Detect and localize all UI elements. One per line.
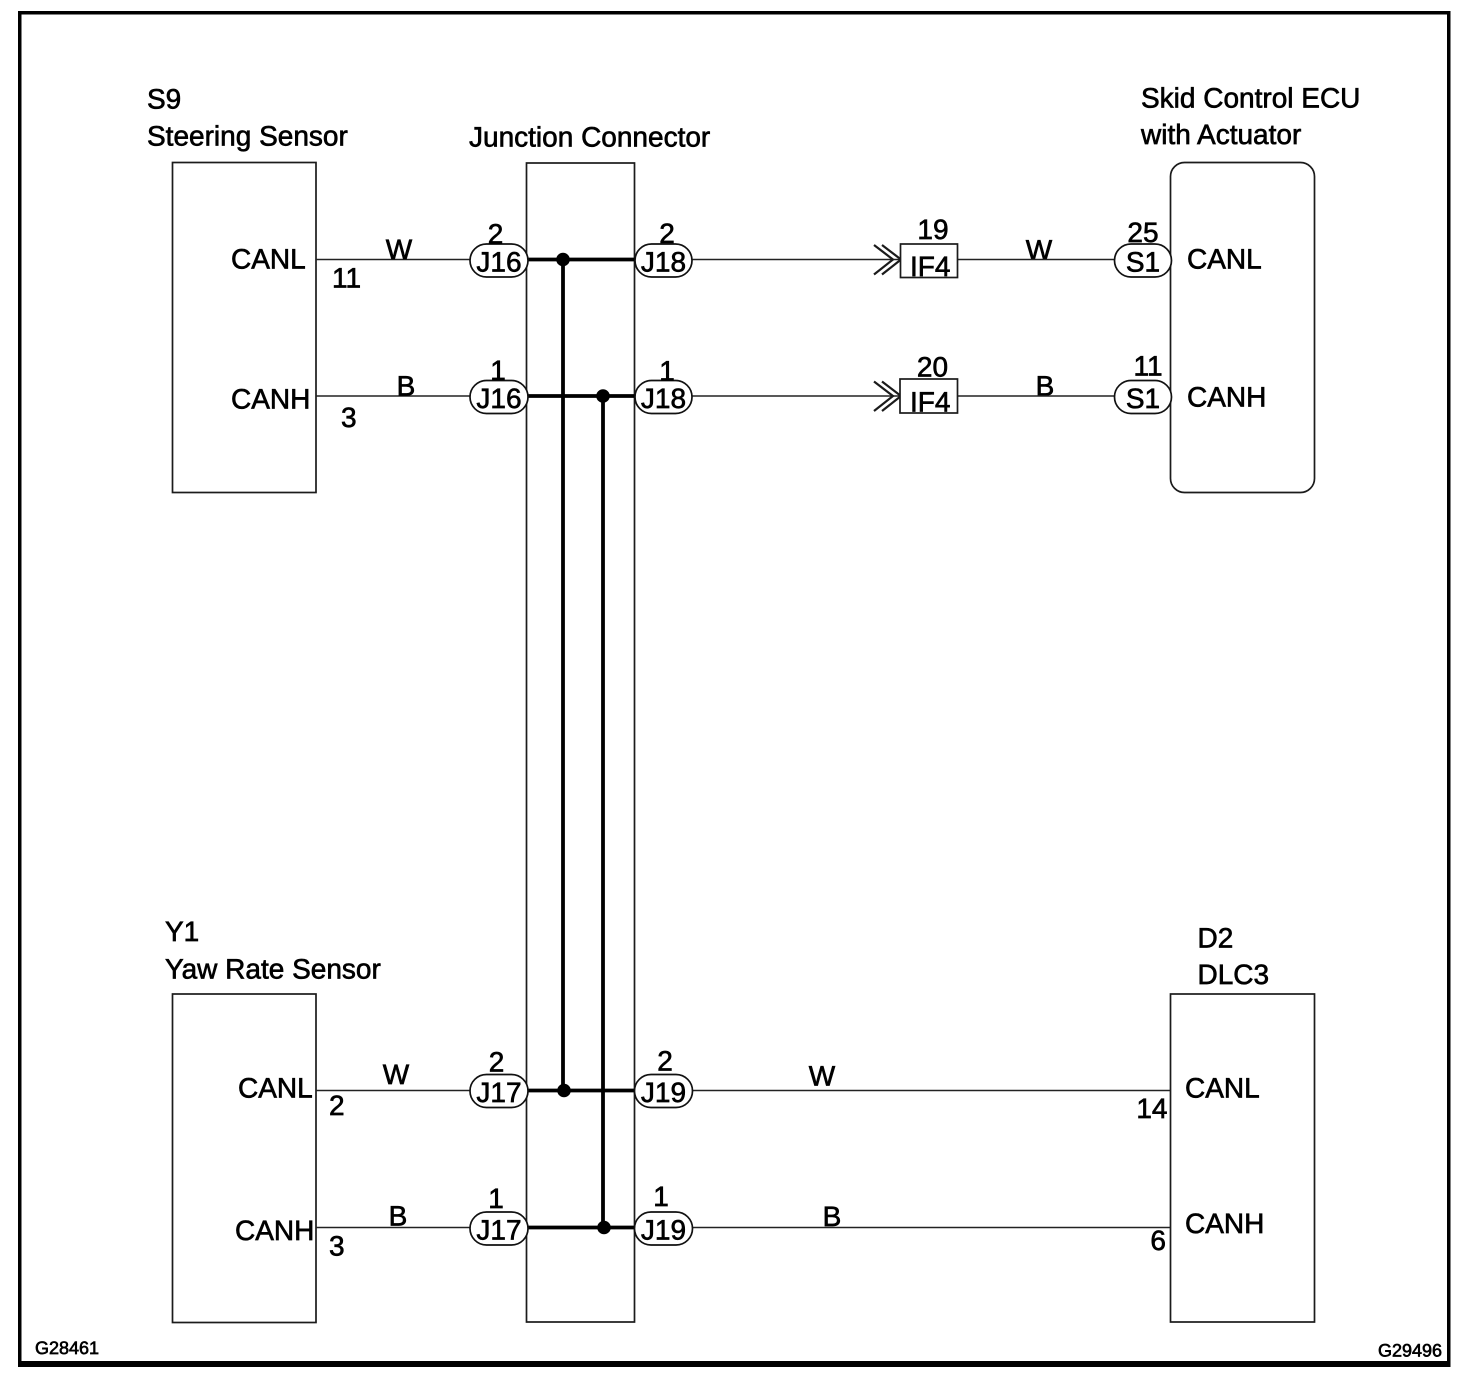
wire bus J16 to J18 row2 (bold) xyxy=(526,394,638,398)
svg-text:J18: J18 xyxy=(641,383,686,414)
svg-text:3: 3 xyxy=(341,402,357,433)
svg-text:11: 11 xyxy=(332,263,361,294)
svg-text:Y1: Y1 xyxy=(165,916,199,947)
svg-text:2: 2 xyxy=(659,218,675,249)
junction node row3 xyxy=(557,1084,571,1098)
connector oval J16 pin2 xyxy=(470,244,528,278)
wire S9 CANH to J16 (B) xyxy=(316,395,471,397)
svg-text:B: B xyxy=(389,1201,408,1232)
wire Y1 CANH to J17 (B) xyxy=(316,1227,471,1229)
svg-text:CANL: CANL xyxy=(1185,1073,1260,1104)
svg-text:S9: S9 xyxy=(147,84,181,115)
connector oval J16 pin1 xyxy=(470,381,528,415)
connector oval J19 pin1 xyxy=(635,1212,693,1246)
svg-text:CANH: CANH xyxy=(231,384,310,415)
svg-text:J17: J17 xyxy=(476,1077,521,1108)
connector oval J18 pin2 xyxy=(635,244,692,278)
connector oval J17 pin2 xyxy=(470,1075,528,1109)
wire bus J17 to J19 row4 (bold) xyxy=(526,1226,638,1230)
svg-text:B: B xyxy=(1036,371,1055,402)
svg-text:G28461: G28461 xyxy=(35,1338,99,1358)
component D2 DLC3 box xyxy=(1171,994,1315,1322)
svg-text:B: B xyxy=(397,371,416,402)
splice box IF4 row2 xyxy=(900,379,958,418)
svg-text:W: W xyxy=(809,1061,836,1092)
svg-text:19: 19 xyxy=(917,214,948,245)
svg-text:Steering Sensor: Steering Sensor xyxy=(147,121,348,152)
svg-text:W: W xyxy=(383,1059,410,1090)
svg-text:J16: J16 xyxy=(476,383,521,414)
svg-text:J16: J16 xyxy=(476,247,521,278)
wire Y1 CANL to J17 (W) xyxy=(316,1090,471,1092)
svg-text:D2: D2 xyxy=(1198,923,1234,954)
wire bus J16 to J18 row1 (bold) xyxy=(526,258,638,262)
svg-text:14: 14 xyxy=(1136,1093,1167,1124)
splice box IF4 row1 xyxy=(901,244,958,282)
svg-text:Skid Control ECU: Skid Control ECU xyxy=(1141,83,1360,114)
svg-text:2: 2 xyxy=(657,1046,673,1077)
junction node row1 xyxy=(556,253,570,267)
svg-text:S1: S1 xyxy=(1126,383,1160,414)
svg-text:J19: J19 xyxy=(641,1077,686,1108)
svg-text:W: W xyxy=(1026,235,1053,266)
wire IF4 to S1 row2 xyxy=(957,395,1114,397)
svg-text:2: 2 xyxy=(488,219,504,250)
splice arrow IF4 row1 xyxy=(874,245,901,275)
connector oval J17 pin1 xyxy=(470,1212,528,1246)
connector oval J19 pin2 xyxy=(635,1075,693,1109)
svg-text:J19: J19 xyxy=(641,1215,686,1246)
component Skid Control ECU box xyxy=(1171,163,1315,493)
svg-text:25: 25 xyxy=(1127,217,1158,248)
component Junction Connector box xyxy=(527,163,635,1322)
svg-text:S1: S1 xyxy=(1126,247,1160,278)
svg-text:11: 11 xyxy=(1133,351,1162,382)
component Y1 Yaw Rate Sensor box xyxy=(173,994,317,1323)
splice arrow IF4 row2 xyxy=(874,382,901,412)
connector oval J18 pin1 xyxy=(635,381,692,415)
svg-text:1: 1 xyxy=(653,1181,669,1212)
svg-text:W: W xyxy=(386,234,413,265)
connector oval S1 pin25 xyxy=(1115,244,1172,278)
svg-text:2: 2 xyxy=(329,1090,345,1121)
junction node row2 xyxy=(596,389,610,403)
svg-text:CANL: CANL xyxy=(1187,244,1262,275)
svg-text:IF4: IF4 xyxy=(910,251,950,282)
connector oval S1 pin11 xyxy=(1115,381,1172,415)
svg-text:CANL: CANL xyxy=(238,1073,313,1104)
wire vertical bus CANL (bold) xyxy=(561,260,565,1091)
svg-text:1: 1 xyxy=(488,1183,504,1214)
svg-text:6: 6 xyxy=(1150,1225,1166,1256)
svg-text:DLC3: DLC3 xyxy=(1198,959,1270,990)
svg-text:IF4: IF4 xyxy=(910,387,950,418)
svg-text:2: 2 xyxy=(489,1047,505,1078)
svg-text:20: 20 xyxy=(917,352,948,383)
svg-text:Junction Connector: Junction Connector xyxy=(469,122,710,153)
svg-text:B: B xyxy=(823,1201,842,1232)
svg-text:CANH: CANH xyxy=(1187,382,1266,413)
wire bus J17 to J19 row3 (bold) xyxy=(526,1089,638,1093)
junction node row4 xyxy=(597,1221,611,1235)
component S9 Steering Sensor box xyxy=(173,163,317,493)
wire J18 to IF4 row2 (B) xyxy=(691,395,900,397)
svg-text:1: 1 xyxy=(659,356,675,387)
wire J18 to IF4 row1 (W) xyxy=(691,259,901,261)
svg-text:1: 1 xyxy=(490,355,506,386)
svg-text:G29496: G29496 xyxy=(1378,1341,1442,1361)
wire IF4 to S1 row1 xyxy=(957,259,1116,261)
svg-text:CANH: CANH xyxy=(235,1215,314,1246)
svg-text:J17: J17 xyxy=(476,1215,521,1246)
svg-text:with Actuator: with Actuator xyxy=(1140,119,1301,150)
svg-text:CANL: CANL xyxy=(231,244,306,275)
svg-text:3: 3 xyxy=(329,1231,345,1262)
svg-text:J18: J18 xyxy=(641,247,686,278)
wire S9 CANL to J16 (W) xyxy=(316,259,471,261)
svg-text:Yaw Rate Sensor: Yaw Rate Sensor xyxy=(165,954,381,985)
svg-text:CANH: CANH xyxy=(1185,1208,1264,1239)
wire J19 to DLC3 row3 (W) xyxy=(691,1090,1171,1092)
wire vertical bus CANH (bold) xyxy=(601,396,605,1228)
wire J19 to DLC3 row4 (B) xyxy=(691,1227,1171,1229)
